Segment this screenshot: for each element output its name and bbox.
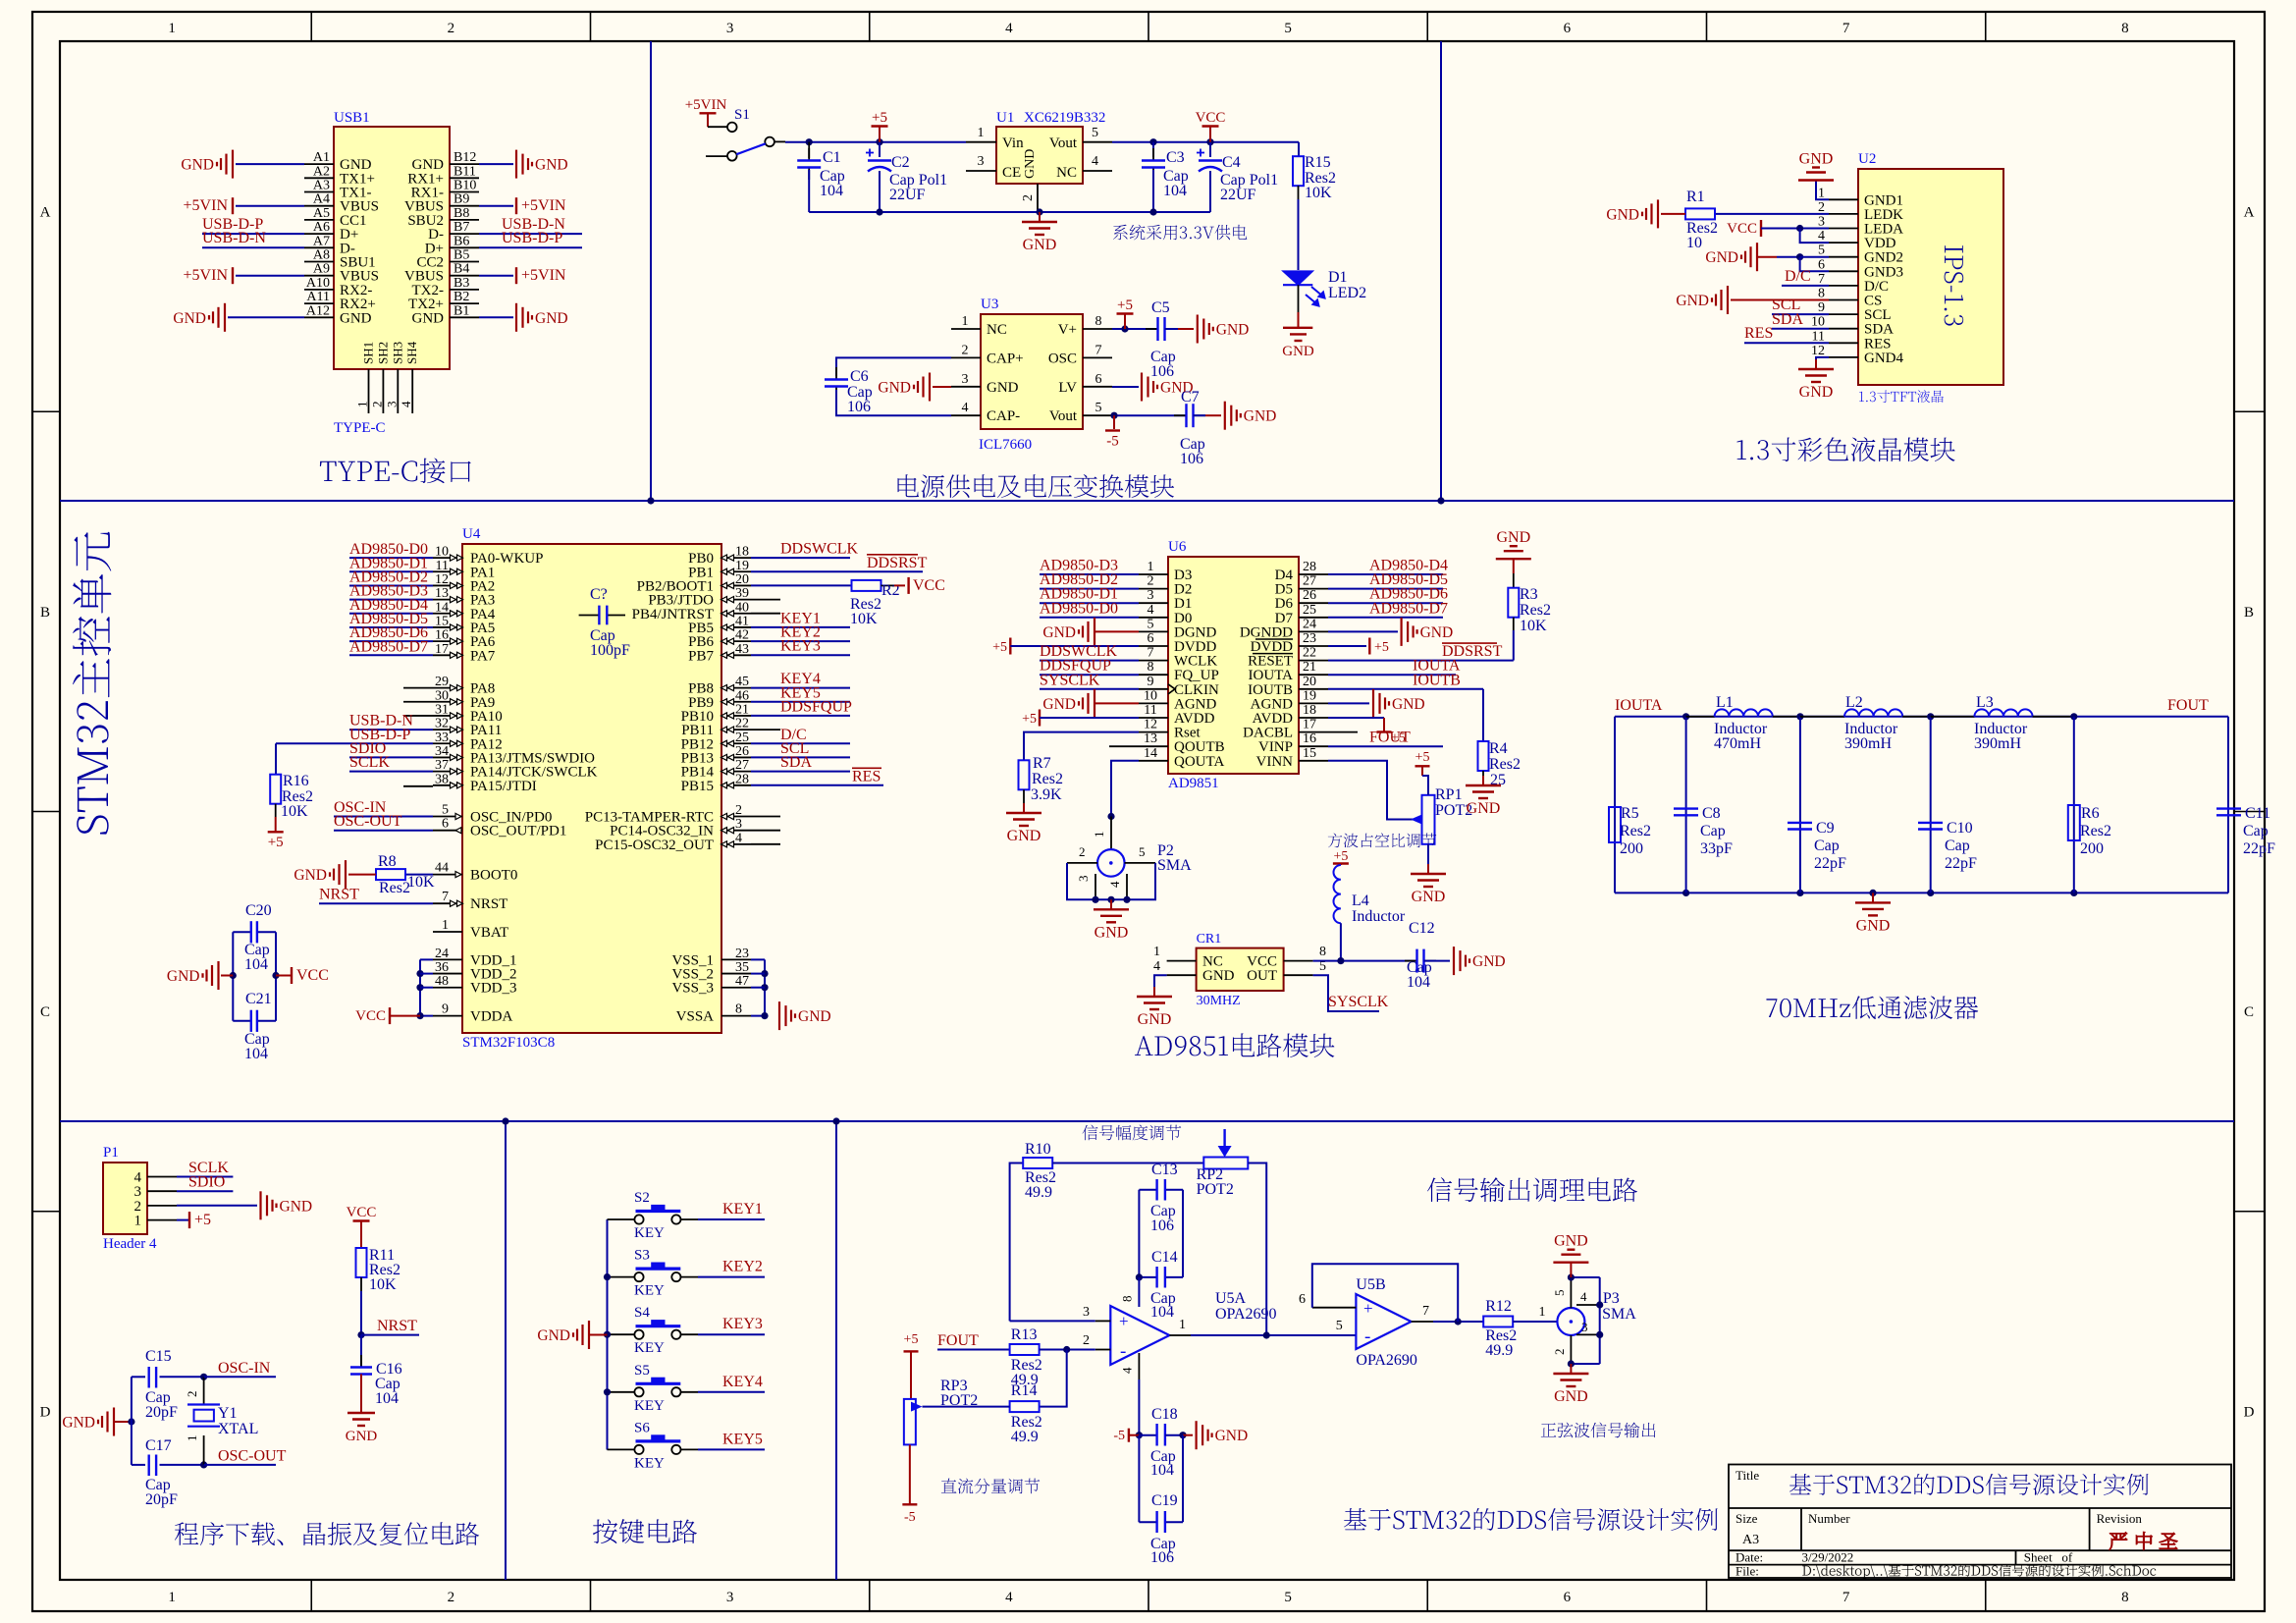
module divider wires bbox=[60, 500, 2234, 502]
title LCD module bbox=[1737, 437, 1955, 461]
svg-text:106: 106 bbox=[1150, 1217, 1174, 1234]
svg-text:4: 4 bbox=[1148, 603, 1154, 618]
ground GND at USB1 A1 bbox=[236, 163, 304, 165]
net label FOUT from U6 VINP bbox=[1328, 745, 1443, 747]
svg-text:Header 4: Header 4 bbox=[103, 1236, 157, 1252]
svg-text:+: + bbox=[1363, 1299, 1373, 1318]
svg-text:16: 16 bbox=[435, 628, 449, 643]
svg-text:PB7: PB7 bbox=[688, 648, 714, 664]
svg-text:GND: GND bbox=[1420, 624, 1454, 641]
ground GND below C16 bbox=[360, 1375, 362, 1414]
svg-text:-5: -5 bbox=[1113, 1429, 1125, 1443]
svg-text:SH4: SH4 bbox=[404, 341, 419, 364]
svg-text:SCL: SCL bbox=[1864, 307, 1892, 323]
svg-text:L1: L1 bbox=[1716, 694, 1734, 711]
svg-text:1: 1 bbox=[168, 1590, 176, 1605]
svg-text:26: 26 bbox=[1303, 588, 1316, 603]
svg-text:D4: D4 bbox=[1275, 568, 1294, 583]
svg-text:DACBL: DACBL bbox=[1243, 726, 1293, 741]
diode D1 LED2 bbox=[1283, 271, 1312, 285]
svg-text:VINN: VINN bbox=[1256, 754, 1294, 770]
svg-text:GND: GND bbox=[1095, 924, 1129, 941]
ground GND left of crystal bbox=[113, 1408, 115, 1436]
svg-text:27: 27 bbox=[735, 758, 749, 773]
svg-text:A6: A6 bbox=[313, 220, 330, 235]
svg-text:10K: 10K bbox=[1520, 618, 1547, 634]
svg-text:GND: GND bbox=[1554, 1233, 1588, 1250]
resistor R6 bbox=[2070, 713, 2077, 720]
svg-text:SDIO: SDIO bbox=[188, 1174, 225, 1191]
ground GND above P3 bbox=[1570, 1263, 1572, 1277]
svg-text:S6: S6 bbox=[634, 1420, 650, 1435]
svg-text:40: 40 bbox=[735, 600, 749, 615]
svg-text:C4: C4 bbox=[1222, 154, 1241, 171]
power +5 at U6 DVDD pin23 bbox=[1328, 645, 1366, 647]
svg-text:DDSRST: DDSRST bbox=[867, 555, 928, 571]
svg-text:25: 25 bbox=[1303, 603, 1316, 618]
svg-text:GND: GND bbox=[1412, 889, 1446, 905]
svg-text:SMA: SMA bbox=[1157, 857, 1192, 874]
svg-text:B10: B10 bbox=[454, 179, 476, 193]
svg-text:Cap: Cap bbox=[1814, 838, 1840, 854]
capacitor C12 bbox=[1405, 960, 1417, 962]
svg-text:C11: C11 bbox=[2245, 805, 2270, 822]
svg-text:5: 5 bbox=[1552, 1290, 1567, 1297]
svg-text:+5: +5 bbox=[1117, 298, 1133, 313]
svg-text:GND: GND bbox=[798, 1008, 831, 1025]
stub DACBL bbox=[1328, 731, 1358, 733]
svg-text:+5VIN: +5VIN bbox=[521, 267, 566, 284]
svg-text:A4: A4 bbox=[313, 192, 330, 207]
oscillator CR1 30MHZ bbox=[1197, 948, 1284, 991]
stub wire PB11 bbox=[751, 729, 780, 730]
capacitor C17 bbox=[132, 1464, 145, 1466]
svg-text:1: 1 bbox=[1148, 560, 1154, 574]
capacitor C13 bbox=[1155, 1179, 1157, 1201]
svg-text:15: 15 bbox=[1303, 746, 1316, 761]
svg-text:LEDA: LEDA bbox=[1864, 222, 1903, 238]
svg-text:PA7: PA7 bbox=[470, 648, 496, 664]
svg-text:B11: B11 bbox=[454, 164, 476, 179]
net label SDIO to PA13 bbox=[349, 756, 433, 758]
svg-text:Title: Title bbox=[1735, 1468, 1759, 1483]
net label USB-D-P at A6 bbox=[202, 233, 304, 235]
svg-text:+5: +5 bbox=[872, 110, 887, 126]
svg-text:22pF: 22pF bbox=[2243, 840, 2275, 857]
net label IOUTB wire to R4 bbox=[1328, 688, 1483, 690]
capacitor C18 bbox=[1139, 1434, 1156, 1436]
svg-text:GND: GND bbox=[1023, 237, 1057, 253]
net label D/C at PB12 bbox=[751, 742, 850, 744]
svg-text:A3: A3 bbox=[313, 179, 330, 193]
svg-text:104: 104 bbox=[1150, 1304, 1174, 1321]
capacitor C10 bbox=[1927, 713, 1934, 720]
svg-text:A7: A7 bbox=[313, 234, 330, 248]
ground GND at USB1 B1 bbox=[479, 316, 513, 318]
svg-text:B: B bbox=[2244, 605, 2254, 621]
svg-text:2: 2 bbox=[448, 21, 455, 36]
net label SCL at PB13 bbox=[751, 756, 850, 758]
stub wires PA8 PA9 PA10 PA15 bbox=[403, 687, 433, 689]
svg-text:10K: 10K bbox=[369, 1276, 397, 1293]
power +5 at U6 AVDD pin11 bbox=[1039, 710, 1041, 727]
svg-text:7: 7 bbox=[1422, 1304, 1429, 1319]
svg-text:FOUT: FOUT bbox=[937, 1332, 979, 1349]
capacitor C8 bbox=[1682, 713, 1689, 720]
svg-text:106: 106 bbox=[1150, 363, 1174, 380]
svg-text:6: 6 bbox=[1564, 21, 1572, 36]
svg-text:38: 38 bbox=[435, 772, 449, 786]
wire S1 to U1 Vin bbox=[785, 141, 966, 143]
svg-text:R8: R8 bbox=[378, 853, 397, 870]
svg-text:NC: NC bbox=[1056, 165, 1077, 181]
svg-text:B8: B8 bbox=[454, 206, 469, 221]
svg-text:VCC: VCC bbox=[347, 1205, 377, 1220]
MCU U4 STM32F103C8 bbox=[462, 544, 721, 1033]
svg-text:D2: D2 bbox=[1174, 582, 1192, 598]
VSS ground rail bbox=[751, 958, 765, 960]
svg-text:6: 6 bbox=[1095, 372, 1102, 387]
filter top rail bbox=[1615, 716, 2228, 718]
power +5 at U6 DVDD pin6 bbox=[1009, 638, 1011, 655]
svg-text:22UF: 22UF bbox=[1220, 187, 1256, 203]
svg-text:Cap: Cap bbox=[2243, 823, 2269, 839]
svg-text:C14: C14 bbox=[1151, 1249, 1178, 1266]
U4 pin BOOT0 bbox=[433, 874, 462, 876]
DDS U6 AD9851 bbox=[1168, 557, 1299, 774]
svg-text:R10: R10 bbox=[1025, 1141, 1051, 1158]
svg-text:44: 44 bbox=[435, 861, 449, 876]
net label RES to U2 pin11 bbox=[1744, 342, 1829, 344]
svg-text:LV: LV bbox=[1058, 380, 1077, 396]
note sine output bbox=[1541, 1423, 1656, 1438]
wire junction down to R14 bbox=[1040, 1350, 1067, 1407]
svg-text:OPA2690: OPA2690 bbox=[1215, 1306, 1277, 1323]
svg-text:R13: R13 bbox=[1011, 1326, 1038, 1343]
svg-text:7: 7 bbox=[1842, 1590, 1850, 1605]
capacitor C20 bbox=[250, 921, 252, 943]
ground GND at P1 pin2 bbox=[177, 1205, 257, 1207]
net label SCLK at P1 pin4 bbox=[177, 1176, 233, 1178]
inductor L1 bbox=[1686, 716, 1715, 718]
svg-text:Cap: Cap bbox=[1945, 838, 1970, 854]
resistor R10 feedback bbox=[1010, 1163, 1024, 1322]
svg-text:FOUT: FOUT bbox=[1369, 730, 1411, 746]
capacitor C? inside U4 bbox=[579, 615, 600, 617]
svg-text:31: 31 bbox=[435, 702, 449, 717]
svg-text:45: 45 bbox=[735, 675, 749, 689]
svg-text:4: 4 bbox=[735, 831, 742, 845]
file path bbox=[1802, 1564, 2156, 1579]
svg-text:GND: GND bbox=[1202, 968, 1235, 984]
svg-text:48: 48 bbox=[435, 974, 449, 989]
svg-text:22pF: 22pF bbox=[1814, 855, 1846, 872]
svg-text:NRST: NRST bbox=[319, 887, 359, 903]
ground GND below U1 pin2 bbox=[1039, 212, 1041, 222]
net label D/C to U2 pin7 bbox=[1782, 285, 1829, 287]
U4 pins PA0-PA7 bbox=[433, 557, 462, 559]
svg-text:+5: +5 bbox=[1333, 849, 1348, 864]
svg-text:D7: D7 bbox=[1275, 611, 1294, 626]
svg-text:KEY3: KEY3 bbox=[722, 1316, 763, 1332]
svg-text:P1: P1 bbox=[103, 1145, 119, 1161]
ground GND right of C18 bbox=[1183, 1434, 1193, 1436]
svg-text:1: 1 bbox=[355, 402, 370, 408]
svg-text:10K: 10K bbox=[407, 874, 435, 891]
svg-text:4: 4 bbox=[962, 401, 969, 415]
svg-text:GND3: GND3 bbox=[1864, 264, 1903, 280]
svg-text:P3: P3 bbox=[1603, 1290, 1620, 1307]
resistor R13 bbox=[1010, 1344, 1040, 1355]
net label KEY5 bbox=[698, 1448, 765, 1450]
svg-text:D/C: D/C bbox=[1864, 279, 1889, 295]
svg-text:VSSA: VSSA bbox=[676, 1009, 715, 1025]
svg-text:C13: C13 bbox=[1151, 1162, 1178, 1178]
svg-text:2: 2 bbox=[1079, 844, 1086, 859]
svg-text:CAP-: CAP- bbox=[987, 408, 1020, 424]
svg-text:39: 39 bbox=[735, 586, 749, 601]
svg-text:R15: R15 bbox=[1305, 154, 1331, 171]
svg-text:Revision: Revision bbox=[2097, 1511, 2143, 1526]
ground GND at U3 pin3 bbox=[929, 373, 931, 402]
svg-text:VCC: VCC bbox=[1196, 110, 1226, 126]
svg-text:DVDD: DVDD bbox=[1251, 639, 1293, 655]
svg-text:SYSCLK: SYSCLK bbox=[1328, 994, 1389, 1010]
svg-text:LEDK: LEDK bbox=[1864, 207, 1903, 223]
svg-text:3/29/2022: 3/29/2022 bbox=[1802, 1550, 1854, 1565]
svg-text:Size: Size bbox=[1735, 1511, 1758, 1526]
svg-text:10K: 10K bbox=[1305, 185, 1332, 201]
svg-text:IOUTA: IOUTA bbox=[1249, 668, 1294, 683]
svg-text:USB1: USB1 bbox=[334, 110, 370, 126]
title STM32 main control unit vertical bbox=[73, 532, 111, 835]
U4 pins VDD bbox=[433, 958, 462, 960]
title AD9851 module bbox=[1135, 1033, 1334, 1057]
svg-text:3: 3 bbox=[726, 21, 734, 36]
svg-text:A3: A3 bbox=[1742, 1533, 1759, 1547]
svg-text:VDD: VDD bbox=[1864, 236, 1896, 251]
svg-text:R6: R6 bbox=[2081, 805, 2100, 822]
svg-text:GND: GND bbox=[1472, 953, 1506, 970]
svg-text:CS: CS bbox=[1864, 294, 1882, 309]
svg-text:2: 2 bbox=[1148, 574, 1154, 589]
svg-text:13: 13 bbox=[435, 586, 449, 601]
svg-text:3: 3 bbox=[1076, 876, 1091, 883]
crystal Y1 XTAL bbox=[200, 1374, 207, 1380]
svg-text:16: 16 bbox=[1303, 731, 1316, 746]
svg-text:Vout: Vout bbox=[1049, 135, 1078, 151]
net label OSC-OUT bbox=[204, 1464, 276, 1466]
svg-text:1: 1 bbox=[442, 918, 449, 933]
svg-text:GND: GND bbox=[1244, 408, 1277, 425]
svg-text:U5B: U5B bbox=[1356, 1276, 1385, 1293]
svg-text:GND: GND bbox=[1007, 828, 1041, 844]
button S5 bbox=[608, 1391, 636, 1393]
svg-text:AGND: AGND bbox=[1174, 696, 1216, 712]
svg-text:GND: GND bbox=[1215, 1428, 1249, 1444]
svg-text:200: 200 bbox=[2080, 840, 2104, 857]
resistor R11 bbox=[356, 1248, 367, 1277]
svg-text:S2: S2 bbox=[634, 1190, 650, 1206]
button S4 bbox=[608, 1333, 636, 1335]
button S6 bbox=[608, 1448, 636, 1450]
svg-text:U5A: U5A bbox=[1215, 1290, 1247, 1307]
svg-text:33: 33 bbox=[435, 730, 449, 745]
svg-text:Y1: Y1 bbox=[218, 1405, 238, 1422]
capacitor C2 polarized bbox=[879, 142, 881, 157]
svg-text:Vin: Vin bbox=[1002, 135, 1024, 151]
svg-text:4: 4 bbox=[1153, 959, 1160, 974]
svg-text:11: 11 bbox=[436, 559, 449, 573]
svg-text:VDDA: VDDA bbox=[470, 1009, 512, 1025]
svg-text:43: 43 bbox=[735, 642, 749, 657]
svg-text:8: 8 bbox=[1148, 660, 1154, 675]
power +5VIN at USB1 B4 bbox=[479, 275, 513, 277]
svg-text:C2: C2 bbox=[891, 154, 910, 171]
U4 pins OSC bbox=[433, 816, 462, 818]
wire R15 to D1 bbox=[1298, 199, 1300, 270]
svg-text:SH2: SH2 bbox=[375, 342, 390, 364]
svg-text:RES: RES bbox=[852, 768, 881, 784]
net label SDA to U2 pin10 bbox=[1772, 328, 1829, 330]
svg-text:S4: S4 bbox=[634, 1305, 650, 1321]
svg-text:GND: GND bbox=[294, 867, 327, 884]
potentiometer RP2 POT2 bbox=[1203, 1158, 1248, 1169]
U4 pins PC13-PC15 bbox=[721, 816, 751, 818]
LCD module U2 IPS-1.3 bbox=[1858, 169, 2003, 385]
svg-text:34: 34 bbox=[435, 744, 449, 759]
capacitor C3 bbox=[1152, 142, 1154, 157]
svg-text:GND: GND bbox=[1705, 249, 1738, 266]
svg-text:L3: L3 bbox=[1976, 694, 1994, 711]
svg-text:4: 4 bbox=[1005, 21, 1013, 36]
svg-text:3: 3 bbox=[726, 1590, 734, 1605]
svg-text:PB15: PB15 bbox=[681, 779, 714, 794]
ground rail under power module bbox=[809, 211, 1210, 213]
svg-text:20: 20 bbox=[1303, 675, 1316, 689]
svg-text:GND: GND bbox=[1799, 151, 1834, 168]
svg-text:AVDD: AVDD bbox=[1174, 711, 1215, 727]
svg-text:2: 2 bbox=[1083, 1333, 1090, 1348]
svg-text:4: 4 bbox=[1005, 1590, 1013, 1605]
power -5 and C18 at U5A pin4 bbox=[1138, 1380, 1140, 1435]
svg-text:A2: A2 bbox=[313, 164, 330, 179]
svg-text:Res2: Res2 bbox=[1620, 823, 1651, 839]
svg-text:GND: GND bbox=[346, 1429, 378, 1444]
svg-text:21: 21 bbox=[1303, 660, 1316, 675]
svg-text:17: 17 bbox=[435, 642, 449, 657]
svg-text:OSC-OUT: OSC-OUT bbox=[218, 1447, 287, 1464]
ground GND below P2 bbox=[1110, 899, 1112, 909]
svg-text:SYSCLK: SYSCLK bbox=[1040, 672, 1100, 688]
power +5 below R16 bbox=[275, 817, 277, 832]
svg-text:9: 9 bbox=[1818, 300, 1825, 315]
ground GND above R3 bbox=[1496, 558, 1531, 560]
svg-text:24: 24 bbox=[1303, 617, 1316, 631]
charge pump U3 ICL7660 bbox=[981, 314, 1083, 429]
capacitor C15 bbox=[132, 1376, 145, 1378]
big title DDS design bbox=[1344, 1508, 1718, 1531]
resistor R16 pull-up bbox=[275, 743, 277, 774]
svg-text:USB-D-P: USB-D-P bbox=[502, 230, 562, 246]
svg-text:5: 5 bbox=[1336, 1319, 1343, 1333]
svg-text:GND: GND bbox=[1676, 293, 1709, 309]
svg-text:104: 104 bbox=[1150, 1462, 1174, 1479]
svg-text:POT2: POT2 bbox=[1197, 1181, 1234, 1198]
svg-text:Number: Number bbox=[1808, 1511, 1850, 1526]
net labels KEY1 KEY2 KEY3 bbox=[751, 626, 850, 628]
svg-text:390mH: 390mH bbox=[1974, 735, 2021, 752]
svg-text:10: 10 bbox=[1811, 315, 1825, 330]
svg-text:VINP: VINP bbox=[1258, 739, 1293, 755]
svg-text:RES: RES bbox=[1864, 336, 1892, 352]
svg-text:+5VIN: +5VIN bbox=[184, 197, 229, 214]
svg-text:GND: GND bbox=[1554, 1388, 1588, 1405]
net label SCLK to PA14 bbox=[349, 771, 433, 773]
potentiometer RP1 POT2 bbox=[1422, 795, 1435, 844]
svg-text:B4: B4 bbox=[454, 262, 469, 277]
svg-text:ICL7660: ICL7660 bbox=[979, 437, 1032, 453]
svg-text:OSC-OUT: OSC-OUT bbox=[334, 813, 402, 830]
svg-text:KEY2: KEY2 bbox=[722, 1259, 763, 1275]
net label KEY3 bbox=[698, 1333, 765, 1335]
svg-text:2: 2 bbox=[369, 402, 384, 408]
svg-text:21: 21 bbox=[735, 702, 749, 717]
svg-text:470mH: 470mH bbox=[1714, 735, 1761, 752]
net label DDSFQUP to U6 FQ_UP bbox=[1040, 674, 1139, 676]
svg-text:TYPE-C: TYPE-C bbox=[334, 420, 386, 436]
svg-text:AD9850-D7: AD9850-D7 bbox=[1369, 600, 1448, 617]
svg-text:+5: +5 bbox=[1374, 640, 1389, 655]
svg-text:4: 4 bbox=[134, 1170, 142, 1186]
connector USB1 body bbox=[334, 127, 450, 369]
svg-text:8: 8 bbox=[735, 1002, 742, 1017]
svg-text:GND: GND bbox=[280, 1198, 313, 1215]
svg-text:3: 3 bbox=[1581, 1320, 1588, 1334]
svg-text:22pF: 22pF bbox=[1945, 855, 1977, 872]
ground GND to U2 CS pin8 bbox=[1727, 286, 1729, 314]
svg-text:4: 4 bbox=[399, 401, 413, 407]
capacitor C21 bbox=[250, 1010, 252, 1032]
svg-text:D: D bbox=[40, 1404, 51, 1420]
title TYPE-C interface bbox=[320, 458, 471, 483]
svg-text:32: 32 bbox=[435, 717, 449, 731]
svg-text:Sheet of: Sheet of bbox=[2024, 1550, 2073, 1565]
svg-text:20pF: 20pF bbox=[145, 1491, 178, 1508]
connector P3 SMA bbox=[1557, 1308, 1584, 1335]
svg-text:GND: GND bbox=[1023, 149, 1038, 179]
svg-text:104: 104 bbox=[820, 183, 843, 199]
svg-text:7: 7 bbox=[1842, 21, 1850, 36]
svg-text:1: 1 bbox=[1092, 832, 1106, 839]
svg-text:23: 23 bbox=[1303, 631, 1316, 646]
svg-text:390mH: 390mH bbox=[1844, 735, 1892, 752]
svg-text:6: 6 bbox=[1818, 257, 1825, 272]
capacitor C1 bbox=[808, 142, 810, 158]
resistor R3 bbox=[1513, 559, 1515, 573]
U5A pin1 output bbox=[1169, 1334, 1191, 1336]
svg-text:GND: GND bbox=[1606, 206, 1639, 223]
svg-text:S5: S5 bbox=[634, 1363, 650, 1379]
svg-text:SH3: SH3 bbox=[390, 342, 404, 364]
svg-text:SH1: SH1 bbox=[361, 342, 376, 364]
svg-text:100pF: 100pF bbox=[590, 642, 630, 659]
resistor R12 bbox=[1483, 1317, 1513, 1327]
wire R11 to NRST node bbox=[360, 1291, 362, 1335]
svg-text:37: 37 bbox=[435, 758, 449, 773]
svg-text:GND: GND bbox=[537, 1327, 570, 1344]
wire RP2 to U5A output node bbox=[1248, 1163, 1266, 1335]
